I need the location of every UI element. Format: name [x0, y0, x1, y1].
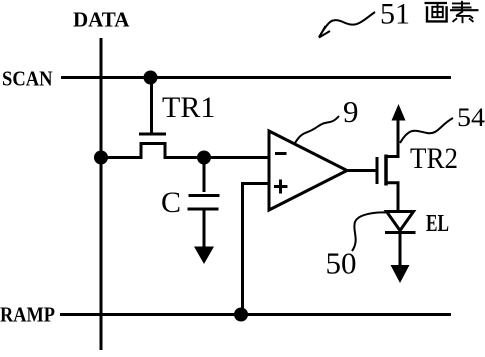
svg-text:RAMP: RAMP [0, 303, 55, 327]
svg-text:SCAN: SCAN [2, 67, 53, 91]
svg-text:C: C [161, 186, 181, 219]
svg-text:DATA: DATA [73, 8, 130, 32]
svg-text:54: 54 [457, 103, 485, 132]
svg-text:EL: EL [426, 211, 449, 237]
svg-text:TR2: TR2 [410, 142, 458, 175]
svg-text:9: 9 [343, 94, 359, 129]
svg-text:TR1: TR1 [162, 91, 215, 124]
svg-text:51: 51 [380, 0, 410, 31]
svg-text:50: 50 [326, 246, 357, 281]
